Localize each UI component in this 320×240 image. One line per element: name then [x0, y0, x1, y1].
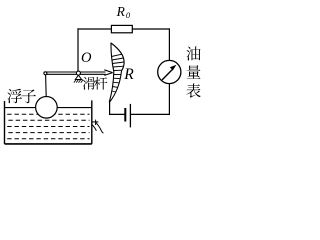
- label 滑杆: [83, 77, 108, 90]
- ammeter fuel gauge meter: [158, 60, 181, 83]
- wire battery to arc bottom: [110, 113, 125, 115]
- resistor R0: [111, 25, 132, 32]
- rheostat crescent R: [109, 43, 124, 102]
- battery cell: short thick plate: [124, 108, 126, 122]
- battery cell: long thin plate: [129, 104, 131, 128]
- wire left vertical down to pivot O: [77, 29, 79, 72]
- wire top-left to R0: [78, 28, 111, 30]
- float ball: [36, 97, 58, 119]
- hinge circle link: [44, 72, 47, 75]
- rheostat winding hatches: [112, 54, 125, 92]
- liquid surface line: [5, 107, 92, 109]
- svg-text:R: R: [116, 4, 126, 19]
- svg-text:O: O: [81, 50, 92, 66]
- label 油量表: [186, 46, 200, 97]
- fulcrum triangle: [75, 75, 81, 79]
- tank right wall: [91, 100, 93, 143]
- wire R0 to top-right corner: [132, 28, 169, 30]
- wire right vertical to meter: [168, 29, 170, 61]
- wire up to rheostat arc: [109, 102, 111, 114]
- label 浮子: [7, 89, 36, 104]
- meter needle: [162, 69, 173, 80]
- lever slider arm (double line): [45, 70, 112, 76]
- tank bottom: [5, 143, 92, 145]
- svg-text:R: R: [123, 66, 134, 83]
- svg-text:0: 0: [126, 10, 131, 20]
- pivot circle O: [76, 71, 80, 75]
- arrowhead open: [104, 70, 112, 73]
- float rod: [45, 75, 48, 97]
- tank left wall: [4, 101, 6, 144]
- wire meter to bottom-right corner: [168, 83, 170, 114]
- liquid dashed lines: [7, 114, 89, 139]
- wire bottom to battery: [131, 113, 170, 115]
- fulcrum ground hatching: [74, 80, 83, 83]
- tank outlet tap mark: [92, 120, 103, 134]
